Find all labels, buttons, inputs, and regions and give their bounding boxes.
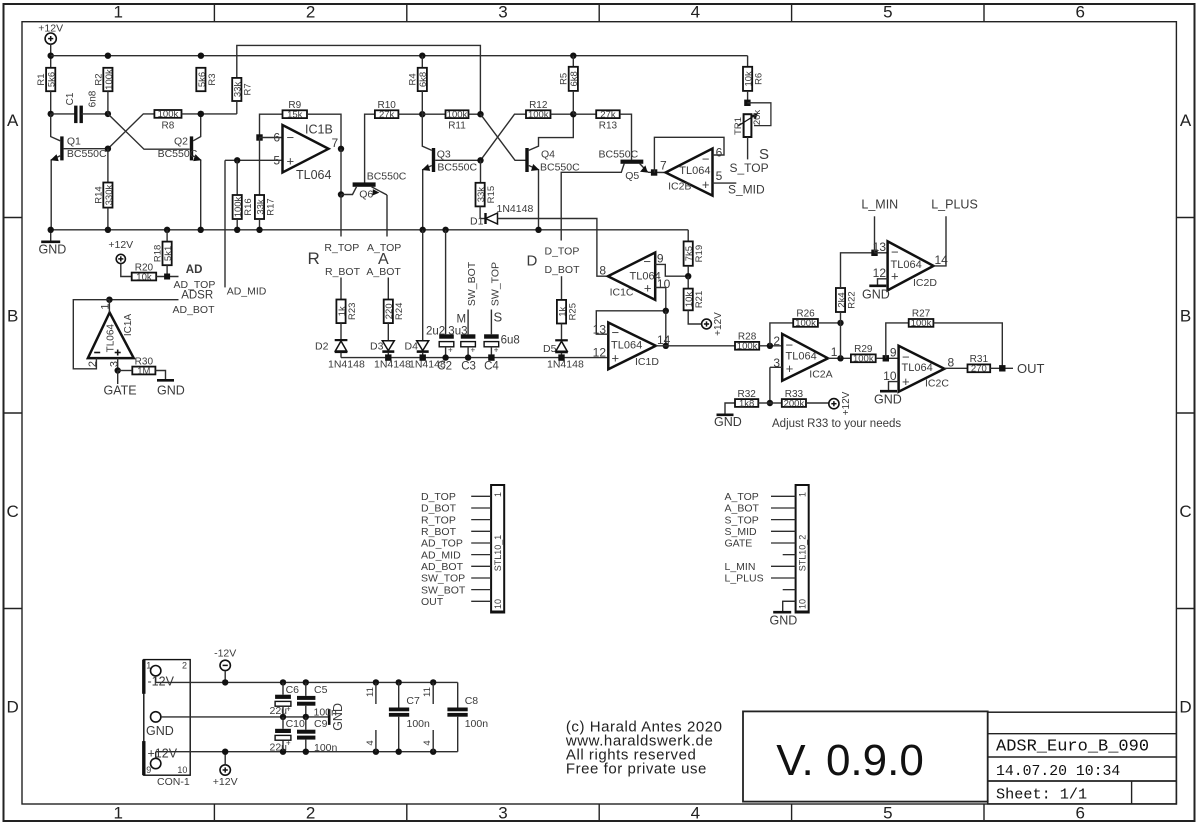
svg-text:6: 6 — [1075, 3, 1084, 22]
row ticks left/right — [4, 217, 23, 219]
op-amp IC2D — [888, 241, 934, 290]
svg-text:Free for private use: Free for private use — [566, 761, 707, 778]
IC2 pin4 stub — [430, 749, 436, 755]
svg-text:BC550C: BC550C — [599, 149, 639, 161]
node IC1B output — [338, 146, 344, 152]
ground symbol R30 — [157, 379, 174, 382]
svg-text:A_BOT: A_BOT — [725, 503, 760, 515]
wire -12V symbol stub — [224, 671, 226, 683]
IC2 pin11 stub — [430, 679, 436, 685]
node rail Q3e — [420, 227, 426, 233]
svg-text:R17: R17 — [265, 198, 276, 215]
op-amp IC1C (points left) — [608, 253, 655, 300]
svg-text:−: − — [287, 130, 295, 145]
IC1 pin11 stub — [373, 679, 379, 685]
wire ADSR — [109, 299, 178, 301]
svg-text:S: S — [759, 146, 769, 163]
svg-text:6k8: 6k8 — [569, 71, 580, 86]
resistor R15 — [476, 183, 485, 207]
diode D5 — [555, 339, 568, 341]
wire R22 top to pin13 — [841, 253, 875, 288]
wire R16 top — [236, 160, 238, 195]
CON-1 gnd pad — [151, 712, 161, 722]
svg-text:R: R — [308, 249, 320, 268]
svg-text:M: M — [457, 313, 467, 325]
op-amp IC1D (points right) — [608, 323, 656, 370]
svg-text:5: 5 — [273, 153, 280, 167]
svg-text:200k: 200k — [784, 398, 805, 409]
svg-text:OUT: OUT — [421, 596, 444, 608]
wire IC1A pin3 to GATE node — [117, 358, 119, 370]
svg-text:L_MIN: L_MIN — [861, 198, 898, 212]
wire pin3 node to R30 — [118, 370, 133, 372]
svg-text:1: 1 — [797, 492, 807, 497]
wire IC1B output down — [340, 149, 342, 195]
op-amp IC2A — [782, 334, 828, 381]
svg-text:R2: R2 — [93, 73, 104, 85]
resistor R18 — [163, 242, 172, 266]
resistor R25 — [557, 300, 566, 324]
svg-text:R28: R28 — [738, 332, 757, 343]
wire pin5 from AD_MID riser — [225, 159, 283, 161]
svg-text:20k: 20k — [752, 110, 763, 126]
svg-text:14.07.20 10:34: 14.07.20 10:34 — [996, 764, 1120, 780]
svg-text:C8: C8 — [465, 695, 479, 707]
svg-text:D2: D2 — [315, 341, 329, 353]
svg-text:S: S — [494, 310, 503, 325]
wire R_BOT stub — [340, 278, 342, 300]
wire IC1A feedback — [73, 300, 109, 369]
wire +12V to rail — [50, 44, 52, 68]
resistor R5 — [569, 67, 578, 91]
svg-text:4: 4 — [422, 740, 433, 745]
svg-text:+: + — [786, 361, 794, 376]
svg-text:R18: R18 — [153, 245, 164, 262]
svg-text:GND: GND — [157, 384, 185, 398]
svg-text:R_TOP: R_TOP — [324, 242, 359, 254]
node R5 bottom — [570, 111, 576, 117]
wire R1 bottom to node — [50, 91, 52, 114]
+12V symbol R21 — [702, 319, 712, 329]
wire Q3 base node to R15 — [480, 160, 482, 183]
resistor R16 — [233, 195, 242, 219]
wire R15 to D1 — [479, 206, 481, 218]
svg-text:27k: 27k — [379, 110, 395, 121]
wire node to C1 — [51, 113, 76, 115]
svg-text:STL10_2: STL10_2 — [797, 535, 807, 572]
svg-text:R_TOP: R_TOP — [421, 514, 456, 526]
svg-text:R32: R32 — [737, 389, 756, 400]
svg-text:BC550C: BC550C — [67, 148, 107, 160]
wire R29 right — [876, 357, 899, 359]
svg-text:Q3: Q3 — [437, 149, 451, 161]
svg-text:1: 1 — [493, 492, 503, 497]
svg-text:R30: R30 — [135, 356, 154, 367]
resistor R7 — [232, 78, 241, 101]
wire pin9 to +12V rail — [155, 752, 157, 759]
diode D1 — [480, 218, 485, 220]
resistor R10 — [375, 110, 399, 118]
svg-text:+12V: +12V — [213, 776, 238, 788]
wire R17 bottom — [259, 219, 261, 230]
+12V supply symbol top-left — [45, 33, 56, 44]
wire D5 to row — [561, 353, 563, 358]
IC1 pin4 stub — [373, 749, 379, 755]
wire Q6 emitter down to A_TOP — [386, 195, 388, 237]
svg-text:R3: R3 — [207, 73, 218, 85]
svg-text:-12V: -12V — [148, 675, 175, 689]
svg-text:C6: C6 — [286, 684, 300, 696]
node IC1B pin6 — [256, 134, 262, 140]
svg-text:R19: R19 — [694, 245, 705, 262]
svg-text:11: 11 — [365, 687, 376, 697]
CON-1 pin1 pad — [151, 666, 161, 676]
svg-text:R23: R23 — [347, 303, 358, 320]
resistor R3 — [196, 68, 205, 91]
svg-text:TL064: TL064 — [106, 324, 117, 353]
wire R10 left to Q6 base — [365, 114, 375, 183]
svg-text:+: + — [494, 346, 499, 355]
resistor R29 — [851, 354, 876, 362]
wire IC2C out — [944, 367, 967, 369]
transistor Q5 — [621, 160, 644, 164]
+12V symbol R33 — [829, 399, 839, 409]
svg-text:BC550C: BC550C — [367, 170, 407, 182]
svg-text:GND: GND — [770, 614, 798, 628]
svg-text:1N4148: 1N4148 — [328, 358, 365, 370]
svg-text:100k: 100k — [447, 110, 468, 121]
node OUT — [999, 365, 1005, 371]
node rail R5 top — [570, 53, 576, 59]
column ticks top/bottom — [213, 4, 215, 22]
resistor R11 — [446, 110, 469, 118]
wire IC1C pin9 — [655, 264, 688, 276]
resistor R14 — [103, 183, 112, 208]
svg-text:Sheet: 1/1: Sheet: 1/1 — [996, 786, 1087, 804]
svg-text:+12V: +12V — [713, 312, 724, 336]
version box — [743, 711, 988, 801]
svg-text:L_PLUS: L_PLUS — [725, 573, 764, 585]
svg-text:A: A — [7, 111, 19, 130]
wire C2 top — [445, 230, 447, 334]
svg-text:R26: R26 — [796, 309, 815, 320]
wire R14 to gnd rail — [107, 208, 109, 230]
wire R22 column — [840, 323, 842, 358]
wire R9 feedback left — [260, 114, 283, 137]
svg-text:8: 8 — [948, 355, 955, 369]
svg-text:6n8: 6n8 — [88, 90, 99, 107]
svg-text:L_MIN: L_MIN — [725, 561, 756, 573]
svg-text:D_TOP: D_TOP — [421, 491, 456, 503]
resistor R19 — [684, 241, 693, 265]
svg-text:R10: R10 — [377, 100, 396, 111]
wire R22 bottom — [840, 312, 842, 323]
node rail R4 top — [419, 53, 425, 59]
svg-text:Q4: Q4 — [541, 149, 555, 161]
capacitor C3 — [461, 334, 476, 338]
wire node to R7 bottom — [201, 113, 237, 115]
wire R7 bottom — [236, 101, 238, 114]
svg-text:R31: R31 — [970, 354, 989, 365]
svg-text:13: 13 — [873, 240, 887, 254]
svg-text:7: 7 — [332, 136, 339, 150]
svg-text:15k: 15k — [287, 110, 303, 121]
+12V supply symbol bottom — [220, 765, 230, 775]
wire cross-couple Q1 base to R8 — [108, 114, 154, 149]
node Q1 base — [105, 146, 111, 152]
svg-text:R_BOT: R_BOT — [421, 526, 457, 538]
wire +12V to R20 — [121, 264, 132, 277]
connector STL10_1 — [491, 485, 504, 613]
wire AD_MID riser — [224, 160, 226, 287]
svg-text:100k: 100k — [795, 318, 816, 329]
wire node to R11 — [422, 113, 445, 115]
node rail R16 — [234, 227, 240, 233]
svg-text:1: 1 — [113, 3, 122, 22]
svg-text:Q5: Q5 — [625, 170, 639, 182]
svg-text:5k6: 5k6 — [47, 72, 58, 87]
svg-text:R4: R4 — [408, 73, 419, 85]
svg-text:TL064: TL064 — [630, 270, 661, 282]
svg-text:2: 2 — [306, 3, 315, 22]
wire D1 to IC1C pin8 — [498, 219, 608, 277]
svg-text:C7: C7 — [406, 695, 420, 707]
svg-text:BC550C: BC550C — [158, 148, 198, 160]
svg-text:+: + — [471, 346, 476, 355]
svg-text:100k: 100k — [911, 318, 932, 329]
svg-text:5: 5 — [883, 3, 892, 22]
svg-text:SW_BOT: SW_BOT — [421, 584, 466, 596]
wire pin6 — [260, 137, 283, 139]
+12V symbol R20 — [116, 254, 125, 263]
node rail R2 top — [105, 53, 111, 59]
wire output down to R_TOP — [340, 195, 342, 237]
svg-text:100k: 100k — [158, 109, 179, 120]
wire R26 right — [818, 322, 841, 324]
svg-text:3u3: 3u3 — [448, 325, 467, 337]
resistor R27 — [909, 319, 934, 327]
resistor R20 — [132, 273, 157, 281]
svg-text:IC1C: IC1C — [610, 287, 634, 299]
wire feedback riser — [665, 311, 667, 346]
svg-text:TR1: TR1 — [733, 117, 744, 135]
svg-text:IC2D: IC2D — [913, 277, 937, 289]
wire C3 top — [467, 310, 469, 335]
svg-text:Q1: Q1 — [67, 136, 81, 148]
svg-text:100n: 100n — [465, 718, 489, 730]
svg-text:−: − — [643, 254, 651, 269]
wire rail corner to R19 — [687, 230, 689, 242]
svg-text:D: D — [7, 697, 19, 716]
wire C2 bottom — [445, 347, 447, 358]
resistor R31 — [968, 364, 991, 372]
node rail — [48, 227, 54, 233]
node Q3 base — [477, 157, 483, 163]
capacitor C2 — [439, 334, 454, 338]
wire -12V rail — [156, 681, 458, 683]
svg-text:TL064: TL064 — [891, 259, 922, 271]
svg-text:R21: R21 — [694, 291, 705, 308]
diode D3 — [382, 341, 394, 351]
svg-text:OUT: OUT — [1017, 361, 1045, 376]
wire C3 bottom — [467, 347, 469, 358]
svg-text:+12V: +12V — [148, 747, 178, 761]
svg-text:V. 0.9.0: V. 0.9.0 — [776, 736, 924, 785]
svg-text:R_BOT: R_BOT — [325, 266, 361, 278]
capacitor C10 — [282, 717, 284, 729]
svg-text:AD_MID: AD_MID — [421, 549, 461, 561]
svg-text:6k8: 6k8 — [418, 72, 429, 87]
node R2 bottom — [105, 111, 111, 117]
wire IC2A out — [828, 357, 851, 359]
wire top +12V rail — [51, 55, 748, 57]
wire R21 to +12V — [688, 310, 702, 324]
svg-text:R16: R16 — [243, 198, 254, 215]
node pin1 — [837, 355, 843, 361]
resistor R6 — [743, 67, 752, 91]
svg-text:AD_BOT: AD_BOT — [173, 304, 216, 316]
svg-text:12: 12 — [593, 346, 607, 360]
resistor R26 — [793, 319, 818, 327]
svg-text:A: A — [1180, 111, 1192, 130]
wire IC2D pin12 gnd — [878, 279, 888, 285]
svg-text:IC2B: IC2B — [668, 181, 691, 193]
svg-text:GATE: GATE — [104, 384, 137, 398]
svg-text:1N4148: 1N4148 — [547, 358, 584, 370]
node top rail — [48, 53, 54, 59]
node R3 bottom — [198, 111, 204, 117]
node IC1D out — [663, 343, 669, 349]
wire R30 to GND — [155, 371, 165, 380]
svg-text:R33: R33 — [785, 389, 804, 400]
svg-text:+: + — [902, 374, 910, 389]
node rail R14 — [105, 227, 111, 233]
svg-text:-12V: -12V — [214, 647, 236, 659]
transistor Q1 — [60, 136, 63, 160]
svg-text:GND: GND — [862, 288, 890, 302]
wire IC2D out to L_PLUS — [934, 216, 947, 266]
svg-text:Q2: Q2 — [174, 136, 188, 148]
wire pin2 to R26 — [770, 323, 793, 346]
svg-text:C: C — [1179, 502, 1191, 521]
diode D4 — [417, 341, 429, 351]
wire R6 to TR1 — [747, 91, 749, 103]
wire R4 top — [421, 56, 423, 68]
node GATE — [115, 367, 121, 373]
svg-text:CON-1: CON-1 — [157, 776, 190, 788]
wire diode row — [341, 357, 608, 359]
svg-text:+: + — [448, 346, 453, 355]
svg-text:D4: D4 — [405, 341, 419, 353]
capacitor C5 — [303, 679, 309, 685]
svg-text:C: C — [7, 502, 19, 521]
svg-text:3: 3 — [498, 804, 507, 823]
transistor Q2 — [190, 136, 193, 160]
node R11 right — [477, 111, 483, 117]
svg-text:100k: 100k — [853, 354, 874, 365]
wire R13 to Q5 base — [620, 114, 632, 160]
svg-text:R12: R12 — [529, 100, 548, 111]
svg-text:1N4148: 1N4148 — [374, 358, 411, 370]
wire R5 bottom — [572, 91, 574, 114]
svg-text:R24: R24 — [394, 303, 405, 320]
node Q2 collector — [198, 111, 204, 117]
node Q6 left — [338, 191, 344, 197]
resistor R1 — [46, 68, 55, 91]
svg-text:R15: R15 — [486, 186, 497, 203]
svg-text:+: + — [702, 177, 710, 192]
svg-text:6u8: 6u8 — [501, 335, 520, 347]
resistor R12 — [526, 110, 551, 118]
transistor Q6 — [353, 182, 376, 186]
svg-text:D: D — [527, 253, 538, 270]
resistor R33 — [782, 399, 806, 407]
wire GATE stub — [117, 371, 119, 385]
capacitor C8 — [457, 682, 459, 707]
svg-text:2: 2 — [182, 661, 187, 671]
svg-text:+12V: +12V — [108, 239, 133, 251]
transistor Q4 — [525, 148, 528, 172]
wire IC1A pin1 — [108, 300, 110, 313]
wire pin3 riser — [770, 366, 782, 368]
svg-text:D5: D5 — [543, 343, 557, 355]
svg-text:AD_TOP: AD_TOP — [421, 538, 463, 550]
svg-text:D3: D3 — [370, 341, 384, 353]
svg-text:6: 6 — [716, 146, 723, 160]
capacitor C9 — [305, 717, 307, 730]
wire R21 top — [687, 276, 689, 288]
node R4 bottom — [419, 111, 425, 117]
wire R2 bottom — [107, 91, 109, 114]
ground symbol IC2D — [869, 284, 886, 287]
svg-text:−: − — [891, 244, 899, 259]
svg-text:C2: C2 — [437, 360, 452, 372]
svg-text:D_BOT: D_BOT — [421, 503, 457, 515]
svg-text:IC1A: IC1A — [123, 314, 134, 337]
resistor R23 — [336, 300, 345, 324]
wire IC2B pin5 S_MID — [713, 182, 737, 184]
wire R28 to pin2 — [759, 345, 782, 347]
svg-text:C1: C1 — [65, 92, 76, 105]
wire R8 to R3 node — [182, 113, 201, 115]
svg-text:10: 10 — [797, 599, 807, 609]
node rail Q4e — [535, 227, 541, 233]
wire cross-couple Q3 base to R12 — [481, 114, 527, 160]
wire D4 to row — [422, 353, 424, 358]
svg-text:3: 3 — [498, 3, 507, 22]
node rail R18 — [164, 227, 170, 233]
wire R18 top — [166, 230, 168, 242]
wire pin13 — [875, 252, 888, 254]
wire IC1D out — [656, 345, 735, 347]
wire R12 right to R5 node — [551, 113, 574, 115]
wire rail corner to R6 — [747, 56, 749, 67]
wire R32 to node — [758, 402, 770, 404]
svg-text:R20: R20 — [135, 262, 154, 273]
svg-text:GND: GND — [146, 724, 174, 738]
resistor R13 — [596, 110, 620, 118]
svg-text:−: − — [612, 325, 620, 340]
node R19/R21 — [685, 273, 691, 279]
wire +12V rail — [156, 751, 458, 753]
svg-text:SW_BOT: SW_BOT — [466, 261, 478, 306]
svg-text:D_TOP: D_TOP — [545, 245, 580, 257]
connector STL10_2 — [796, 485, 809, 613]
svg-text:9: 9 — [146, 765, 151, 775]
node IC2D pin13 / L_MIN — [871, 250, 877, 256]
svg-text:2: 2 — [306, 804, 315, 823]
connector CON-1 — [144, 660, 190, 776]
